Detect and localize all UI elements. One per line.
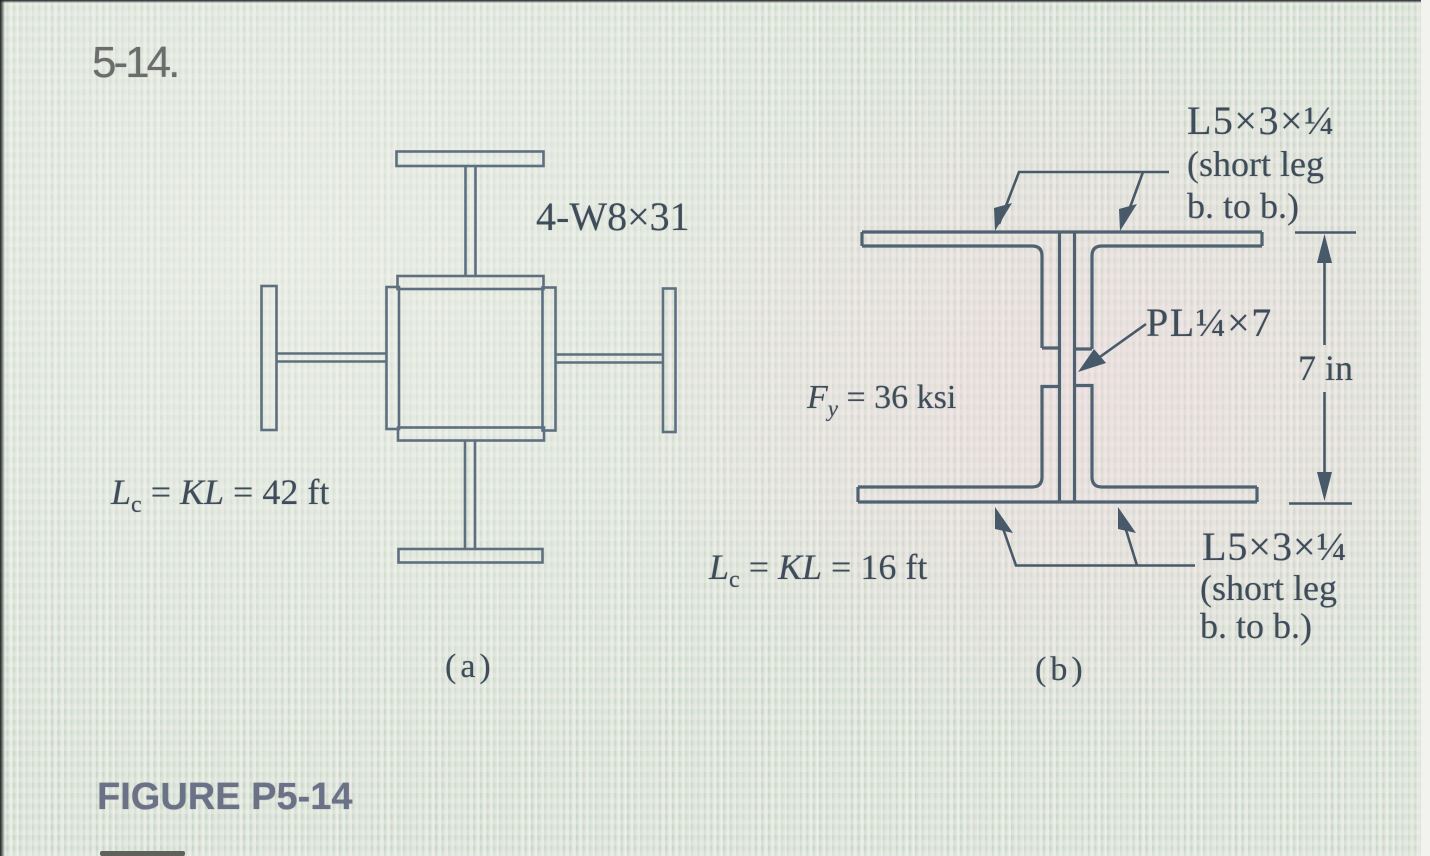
angle bottom flange bottom line <box>858 500 1257 503</box>
label bottom short leg <box>1200 570 1337 606</box>
arrowhead bottom label right <box>1118 507 1136 533</box>
leader top label horizontal <box>999 172 1169 224</box>
dimension lower shaft <box>1323 392 1326 486</box>
dimension top tick <box>1295 231 1356 234</box>
arrowhead top label left <box>994 203 1012 231</box>
label (a) <box>445 650 495 684</box>
leader top label second diagonal <box>1125 172 1143 221</box>
arrowhead bottom label left <box>995 507 1013 533</box>
dimension bottom tick <box>1289 502 1352 505</box>
leader PL label <box>1090 324 1146 364</box>
dimension upper shaft <box>1323 252 1326 345</box>
arrowhead dimension up <box>1317 234 1332 263</box>
label Lc = KL = 16 ft <box>709 549 927 592</box>
W3 left beam left flange <box>262 286 277 430</box>
W2 bottom beam bottom flange <box>399 549 543 563</box>
edge shadow top <box>0 0 1430 3</box>
bottom smudge <box>100 851 185 856</box>
label 7 in <box>1298 350 1353 386</box>
plate PL quarter x7 left edge <box>1058 233 1061 501</box>
W2 bottom beam top flange <box>398 428 544 441</box>
W1 top beam top flange <box>397 152 544 167</box>
top-right angle leg end tick <box>1075 347 1093 350</box>
angle top flange top line <box>862 230 1262 233</box>
top-left angle horizontal leg bottom + fillet into vertical leg <box>862 246 1042 348</box>
top-left angle leg end tick <box>1042 346 1060 349</box>
label (b) <box>1035 653 1087 687</box>
edge light right <box>1421 0 1430 856</box>
leader bottom label horizontal <box>999 517 1195 566</box>
edge shadow left <box>0 0 5 856</box>
angle bottom flange left end cap <box>856 487 859 502</box>
angle bottom flange right end cap <box>1255 487 1258 502</box>
caption FIGURE P5-14 <box>97 778 353 816</box>
arrowhead dimension down <box>1317 472 1332 501</box>
W3 left beam right flange <box>387 287 400 429</box>
W2 bottom beam web <box>465 441 475 550</box>
angle top flange left end cap <box>860 232 863 246</box>
label Lc = KL = 42 ft <box>111 474 329 517</box>
label 4-W8x31 <box>536 197 690 237</box>
W1 top beam web <box>466 166 476 276</box>
bottom-right angle vertical leg + fillet <box>1075 386 1258 488</box>
W4 right beam right flange <box>663 289 676 433</box>
label top short leg <box>1187 146 1324 182</box>
angle top flange right end cap <box>1260 232 1263 246</box>
label Fy = 36 ksi <box>807 381 956 420</box>
label top b to b <box>1187 188 1299 224</box>
bottom-left angle vertical leg + fillet into horizontal leg <box>858 387 1060 488</box>
plate PL quarter x7 right edge <box>1073 233 1076 501</box>
problem number 5-14. <box>92 41 177 85</box>
label bottom L5x3x1/4 <box>1202 527 1348 567</box>
arrowhead top label right <box>1119 204 1137 231</box>
arrowhead PL label <box>1078 349 1106 372</box>
W4 right beam web <box>556 355 664 363</box>
label bottom b to b <box>1200 608 1312 644</box>
label top L5x3x1/4 <box>1187 101 1336 141</box>
W1 top beam bottom flange <box>398 276 544 289</box>
leader bottom label second diagonal <box>1122 517 1137 566</box>
W3 left beam web <box>277 354 387 362</box>
top-right angle horizontal leg bottom + fillet <box>1092 246 1262 349</box>
W4 right beam left flange <box>543 288 556 431</box>
label PL 1/4 x 7 <box>1146 303 1273 343</box>
